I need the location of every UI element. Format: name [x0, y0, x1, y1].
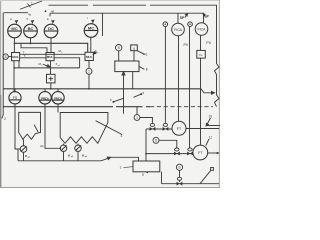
- svg-text:2: 2: [4, 117, 6, 121]
- svg-text:m1: m1: [58, 65, 61, 67]
- svg-text:И: И: [25, 154, 27, 158]
- svg-text:LI: LI: [133, 46, 136, 50]
- svg-text:PRCA: PRCA: [41, 96, 49, 100]
- svg-text:И: И: [82, 153, 84, 157]
- svg-text:11: 11: [209, 136, 213, 140]
- svg-text:FICA: FICA: [174, 28, 183, 32]
- svg-text:MC: MC: [88, 26, 94, 31]
- svg-text:И: И: [68, 153, 70, 157]
- svg-text:4б: 4б: [51, 10, 55, 14]
- svg-text:FICA: FICA: [198, 27, 207, 31]
- svg-text:FL: FL: [199, 53, 203, 57]
- svg-text:9: 9: [142, 173, 144, 177]
- svg-text:BC: BC: [28, 26, 34, 31]
- svg-text:SP: SP: [180, 16, 185, 20]
- svg-text:p3: p3: [85, 156, 87, 158]
- svg-text:1: 1: [88, 70, 90, 74]
- svg-text:НА: НА: [40, 144, 44, 148]
- svg-text:3: 3: [121, 134, 123, 138]
- svg-text:p1: p1: [28, 157, 30, 159]
- svg-text:MUL: MUL: [12, 55, 19, 59]
- svg-text:8: 8: [146, 68, 148, 72]
- svg-text:1: 1: [136, 116, 138, 120]
- svg-text:г: г: [87, 16, 88, 20]
- svg-text:MUL: MUL: [86, 55, 93, 59]
- svg-text:MUL: MUL: [47, 55, 54, 59]
- svg-text:1: 1: [31, 2, 33, 6]
- svg-text:MC: MC: [11, 26, 17, 31]
- svg-text:FS: FS: [13, 96, 18, 100]
- svg-text:10: 10: [209, 114, 213, 118]
- svg-text:PV: PV: [206, 41, 211, 45]
- svg-text:б: б: [27, 17, 29, 21]
- svg-text:PV: PV: [184, 43, 189, 47]
- svg-text:6: 6: [146, 53, 148, 57]
- svg-text:p2: p2: [71, 156, 73, 158]
- svg-text:SP: SP: [204, 15, 209, 19]
- svg-text:7: 7: [120, 166, 122, 170]
- svg-text:DC: DC: [48, 26, 54, 31]
- svg-text:PRCA: PRCA: [54, 96, 62, 100]
- svg-text:4a: 4a: [28, 12, 32, 16]
- svg-text:n: n: [26, 57, 27, 59]
